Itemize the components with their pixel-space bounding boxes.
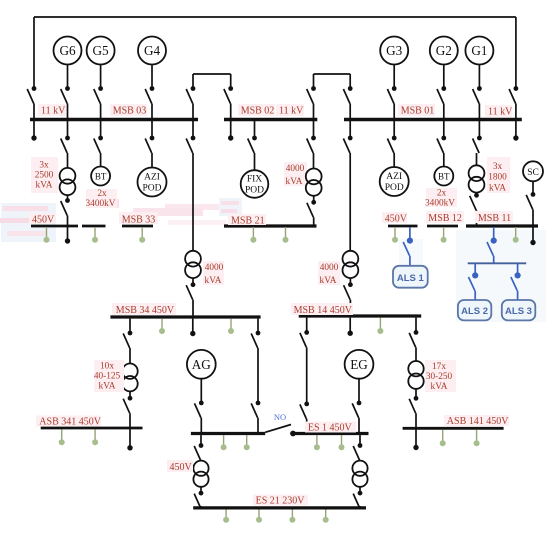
- label MSB 02: [238, 104, 275, 117]
- svg-text:G5: G5: [93, 43, 110, 58]
- breaker AZI POD left: [145, 120, 154, 168]
- outgoing group 450V port: [44, 227, 50, 243]
- label 17x 30-250 kVA: [425, 360, 456, 392]
- outgoing group ES21 a: [223, 510, 229, 523]
- svg-text:G3: G3: [386, 43, 403, 58]
- bus 450V stbd: [388, 225, 418, 228]
- node below 450V port bus: [65, 226, 70, 244]
- breaker incoming x479.4: [473, 86, 482, 119]
- svg-text:ALS 2: ALS 2: [461, 306, 488, 317]
- outgoing group MSB 12: [441, 227, 447, 243]
- svg-text:4000: 4000: [286, 164, 305, 174]
- breaker FIX POD: [248, 120, 257, 171]
- breaker incoming x193: [186, 86, 195, 119]
- stub node below MSB34: [190, 319, 195, 337]
- svg-text:POD: POD: [142, 184, 161, 194]
- svg-text:17x: 17x: [432, 362, 446, 372]
- stub node below MSB03 left end: [31, 120, 36, 141]
- svg-text:2500: 2500: [35, 171, 54, 181]
- svg-text:3400kV: 3400kV: [425, 199, 455, 209]
- svg-text:POD: POD: [385, 183, 404, 193]
- svg-text:MSB 03: MSB 03: [113, 106, 147, 117]
- breaker MSB03 feeder to T-MSB34: [186, 120, 195, 251]
- svg-text:3400kV: 3400kV: [86, 199, 116, 209]
- outgoing group ASB141 b: [474, 430, 480, 447]
- breaker MSB14 to ES1 bus: [300, 318, 309, 434]
- bus MSB 33: [122, 225, 153, 228]
- svg-text:FIX: FIX: [247, 175, 262, 185]
- stub node below MSB02 tie: [228, 120, 233, 141]
- svg-text:MSB 02: MSB 02: [241, 106, 275, 117]
- breaker incoming x67.5: [61, 86, 70, 119]
- label 11 kV mid: [276, 104, 304, 117]
- svg-text:11 kV: 11 kV: [488, 107, 513, 118]
- stub node below MSB01 right end: [513, 120, 518, 141]
- label 2x 3400kV right: [425, 188, 457, 209]
- svg-text:MSB 21: MSB 21: [231, 215, 265, 226]
- outgoing group ES21 c: [289, 510, 295, 523]
- transformer 450V/230V stbd: [352, 461, 367, 487]
- outgoing group segment 2: [92, 227, 98, 243]
- label 11 kV left: [38, 104, 66, 117]
- breaker MSB34 to T-ASB341: [123, 319, 132, 364]
- bus ES left section: [191, 432, 265, 435]
- svg-text:2x: 2x: [97, 189, 107, 199]
- svg-text:AZI: AZI: [144, 173, 160, 183]
- bus MSB 03: [30, 118, 198, 121]
- feeder MSB02 to T-MSB21: [307, 120, 316, 169]
- box ALS 1: [393, 266, 428, 288]
- label 2x 3400kV left: [86, 189, 117, 209]
- breaker EG: [352, 401, 361, 434]
- outgoing group MSB 11: [513, 227, 519, 243]
- outgoing group ES21 d: [323, 510, 329, 523]
- svg-text:450V: 450V: [32, 214, 55, 225]
- outgoing group MSB 21 a: [250, 227, 256, 243]
- svg-text:30-250: 30-250: [426, 372, 453, 382]
- breaker T-ES21 port primary: [194, 435, 203, 461]
- outgoing group ES1 a: [314, 435, 320, 450]
- breaker T1 primary: [61, 120, 70, 169]
- box ALS 2: [458, 300, 491, 320]
- label 450V transformer: [167, 460, 193, 473]
- breaker BT right: [437, 120, 446, 167]
- svg-text:EG: EG: [350, 357, 368, 372]
- generator AG: [187, 350, 216, 402]
- label ES 1 450V: [305, 422, 356, 434]
- label MSB 34 450V: [112, 303, 176, 316]
- svg-text:ALS 1: ALS 1: [397, 273, 425, 284]
- generator EG: [345, 350, 374, 402]
- transformer 10x40-125kVA: [122, 364, 137, 392]
- erased watermark remnant above MSB33: [113, 199, 203, 216]
- label MSB 33: [119, 212, 158, 225]
- switch ALS2 feeder: [469, 263, 479, 300]
- bus MSB 11: [466, 224, 538, 227]
- bar ALS distribution: [468, 262, 527, 264]
- label MSB 12: [426, 211, 464, 224]
- breaker T-ASB341 secondary: [123, 391, 133, 450]
- breaker T-MSB11 secondary: [470, 193, 479, 226]
- svg-text:SC: SC: [527, 168, 539, 178]
- svg-text:MSB 01: MSB 01: [401, 106, 435, 117]
- breaker incoming x350.2: [343, 86, 352, 119]
- transformer 3x1800kVA: [469, 165, 485, 192]
- box ALS 3: [502, 300, 536, 320]
- label 4000 kVA left: [203, 261, 224, 286]
- svg-text:1800: 1800: [488, 173, 507, 183]
- outgoing group 450V stbd: [392, 227, 398, 243]
- wire top ring main: [34, 17, 516, 87]
- svg-text:G1: G1: [471, 43, 487, 58]
- svg-text:kVA: kVA: [431, 382, 448, 392]
- breaker T1 secondary: [61, 195, 70, 226]
- outgoing group MSB 21 b: [283, 227, 289, 243]
- svg-text:MSB 12: MSB 12: [428, 213, 462, 224]
- transformer 450V/230V port: [193, 461, 208, 487]
- bus 450V port: [31, 225, 78, 228]
- breaker T-MSB14 secondary: [344, 278, 353, 316]
- transformer 4000kVA left: [185, 251, 201, 278]
- generator G5: [87, 37, 115, 87]
- outgoing group ES1 b: [339, 435, 345, 450]
- svg-text:kVA: kVA: [286, 177, 303, 187]
- svg-text:G2: G2: [436, 43, 452, 58]
- svg-text:ASB 341 450V: ASB 341 450V: [39, 416, 101, 427]
- bus MSB 01: [344, 118, 522, 121]
- transformer 4000kVA MSB21: [306, 169, 322, 196]
- svg-text:4000: 4000: [320, 263, 339, 273]
- generator G6: [54, 37, 82, 87]
- svg-text:kVA: kVA: [205, 276, 222, 286]
- bow thruster BT left: [91, 167, 110, 186]
- breaker T-ES21 stbd primary: [353, 435, 362, 461]
- svg-text:BT: BT: [95, 172, 107, 182]
- svg-text:3x: 3x: [493, 162, 503, 172]
- bus tie MSB02-MSB01: [314, 74, 351, 87]
- bus ASB 141: [403, 427, 504, 430]
- label 3x 1800 kVA: [487, 157, 510, 194]
- bus ES 21: [193, 506, 366, 509]
- svg-text:kVA: kVA: [99, 382, 116, 392]
- outgoing group ES-left b: [244, 435, 250, 450]
- fixed pod FIX POD: [241, 170, 269, 198]
- label 11 kV right: [485, 105, 513, 118]
- outgoing group ASB341 a: [59, 430, 65, 446]
- svg-text:450V: 450V: [170, 462, 193, 473]
- switch NO open tie: [265, 425, 296, 437]
- generator G2: [430, 37, 458, 87]
- erased watermark remnant left: [0, 203, 56, 242]
- label 10x 40-125 kVA: [94, 360, 124, 392]
- switch MSB11 ALS feeder: [487, 227, 497, 263]
- outgoing group MSB34 b: [228, 319, 234, 334]
- outgoing group ASB141 a: [440, 430, 446, 447]
- svg-text:G4: G4: [144, 43, 161, 58]
- svg-text:4000: 4000: [205, 263, 224, 273]
- svg-text:11 kV: 11 kV: [279, 106, 304, 117]
- svg-text:POD: POD: [245, 186, 264, 196]
- switch ALS3 feeder: [511, 263, 521, 300]
- label 450V port: [29, 213, 55, 225]
- breaker incoming x515.9: [509, 86, 518, 119]
- bus MSB 21: [224, 224, 317, 227]
- breaker T-ES21 port secondary: [194, 487, 203, 508]
- azimuth pod AZI POD right: [380, 167, 409, 196]
- generator G3: [380, 37, 408, 87]
- outgoing group ES-left a: [221, 435, 227, 450]
- svg-text:ALS 3: ALS 3: [505, 306, 532, 317]
- svg-text:MSB 34 450V: MSB 34 450V: [116, 305, 175, 316]
- erased watermark remnant center-left: [165, 204, 233, 225]
- svg-text:AG: AG: [192, 357, 212, 372]
- breaker BT left: [94, 120, 103, 167]
- label NO: [274, 412, 286, 422]
- svg-text:ES 21 230V: ES 21 230V: [256, 496, 306, 507]
- svg-text:kVA: kVA: [320, 276, 337, 286]
- transformer T1 3x2500kVA: [60, 168, 76, 195]
- svg-text:ASB 141 450V: ASB 141 450V: [447, 416, 509, 427]
- shaft generator SC: [523, 161, 543, 181]
- bus ES 1: [293, 432, 369, 435]
- breaker T-ES21 stbd secondary: [353, 487, 362, 508]
- label 4000 kVA MSB21: [284, 162, 307, 187]
- generator G1: [465, 37, 493, 87]
- svg-text:MSB 11: MSB 11: [478, 213, 511, 224]
- label MSB 21: [228, 214, 266, 226]
- bus MSB 12: [427, 225, 458, 228]
- breaker incoming x394.2: [387, 86, 396, 119]
- breaker AZI POD right: [387, 120, 396, 168]
- azimuth pod AZI POD left: [138, 168, 167, 197]
- label MSB 14 450V: [291, 303, 353, 316]
- breaker T-MSB11 primary: [473, 120, 482, 166]
- svg-text:ES 1 450V: ES 1 450V: [308, 422, 353, 433]
- svg-text:MSB 14 450V: MSB 14 450V: [294, 305, 353, 316]
- svg-text:BT: BT: [438, 172, 450, 182]
- breaker SC: [526, 181, 536, 245]
- breaker MSB01 feeder to T-MSB14: [343, 120, 352, 251]
- label 450V stbd: [382, 212, 408, 225]
- svg-text:G6: G6: [59, 43, 76, 58]
- svg-text:kVA: kVA: [36, 181, 53, 191]
- breaker T-ASB141 secondary: [409, 389, 418, 450]
- breaker MSB34 to ES bus: [251, 319, 260, 434]
- label MSB 11: [475, 211, 513, 224]
- outgoing group ES21 b: [256, 510, 262, 523]
- transformer 17x30-250kVA: [408, 361, 423, 389]
- outgoing group MSB34 a: [159, 319, 165, 334]
- breaker incoming x100.6: [94, 86, 103, 119]
- breaker MSB14 to T-ASB141: [409, 318, 418, 361]
- svg-text:11 kV: 11 kV: [41, 106, 66, 117]
- svg-text:450V: 450V: [385, 214, 408, 225]
- svg-text:10x: 10x: [100, 362, 114, 372]
- erased watermark remnant left of MSB21: [219, 198, 242, 216]
- bus MSB 14: [299, 314, 422, 317]
- bow thruster BT right: [434, 167, 453, 186]
- breaker incoming x34: [27, 86, 36, 119]
- svg-text:2x: 2x: [437, 189, 447, 199]
- outgoing group MSB14: [377, 318, 383, 334]
- label 4000 kVA right: [318, 261, 340, 286]
- transformer 4000kVA right: [343, 251, 359, 278]
- breaker incoming x313.5: [307, 86, 316, 119]
- label MSB 03: [110, 104, 147, 117]
- breaker incoming x230.7: [224, 86, 233, 119]
- label ES 21 230V: [253, 495, 308, 507]
- outgoing group ASB341 b: [92, 430, 98, 446]
- breaker T-MSB21 secondary: [307, 196, 316, 226]
- switch ALS1 feeder: [403, 227, 413, 266]
- outgoing group MSB 33: [139, 227, 145, 243]
- blue halo behind ALS switches: [399, 230, 546, 322]
- label ASB 141 450V: [444, 415, 509, 427]
- label ASB 341 450V: [36, 416, 102, 428]
- bus MSB 34: [110, 315, 260, 318]
- svg-text:AZI: AZI: [386, 172, 402, 182]
- svg-text:40-125: 40-125: [94, 372, 121, 382]
- bus tie MSB03-MSB02: [193, 74, 231, 87]
- breaker incoming x443.8: [437, 86, 446, 119]
- generator G4: [138, 37, 166, 87]
- bus ASB 341: [41, 427, 143, 430]
- label 3x 2500 kVA: [31, 157, 58, 193]
- svg-text:MSB 33: MSB 33: [122, 214, 156, 225]
- breaker T-MSB34 secondary: [186, 278, 195, 317]
- stub node below MSB14: [348, 318, 353, 336]
- label MSB 01: [398, 104, 435, 117]
- svg-text:NO: NO: [274, 412, 286, 422]
- breaker AG: [195, 401, 204, 434]
- breaker incoming x152: [145, 86, 154, 119]
- svg-text:3x: 3x: [39, 161, 49, 171]
- bus segment 2: [82, 225, 106, 228]
- bus MSB 02: [224, 118, 317, 121]
- svg-text:kVA: kVA: [489, 184, 506, 194]
